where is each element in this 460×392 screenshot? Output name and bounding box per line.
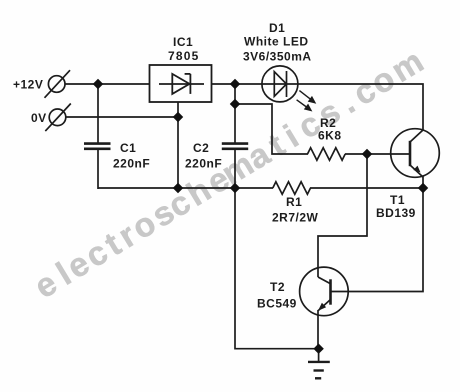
wire IC1 ground pin [177,102,179,188]
node junction rail C2 [230,183,240,193]
svg-text:3V6/350mA: 3V6/350mA [243,50,312,64]
LED arrow 1 [299,91,315,103]
transistor T1 emitter arrow [413,166,420,173]
wire T2 emitter down to ground node [317,310,319,349]
svg-text:T1: T1 [390,193,405,207]
wire C2 lower lead [234,149,236,188]
transistor T1 [391,129,440,189]
svg-text:220nF: 220nF [113,157,150,171]
node junction T1 emitter [418,183,428,193]
svg-text:C2: C2 [193,141,209,155]
resistor R1 [273,182,311,194]
svg-text:6K8: 6K8 [318,129,342,143]
svg-text:D1: D1 [269,21,285,35]
ground [308,349,330,379]
wire 0V line [66,116,178,118]
transistor T2 emitter arrow [318,303,326,311]
node junction at C1 top [93,79,103,89]
wire R1 to T1 emitter node [310,187,423,189]
wire C1 lower lead [97,149,99,189]
wire ground rail C1 to R1 [98,187,273,189]
LED D1 [262,66,298,102]
resistor R2 [308,148,346,160]
capacitor C1 [84,144,111,149]
LED arrow 2 [297,100,311,111]
node junction ground [313,343,323,353]
wire R2 junction down to T2 collector [318,154,367,277]
svg-text:7805: 7805 [168,49,200,63]
capacitor C2 [222,144,248,149]
svg-text:BD139: BD139 [376,206,416,220]
svg-text:White LED: White LED [244,35,309,49]
transistor T2 [300,267,349,316]
terminal 0V [45,104,71,132]
watermark electroschematics.com [29,43,430,306]
wire ground rail left vertical [235,188,318,349]
wire +5V node down to R2 feed node [234,84,236,143]
node junction +5V at C2 top [230,79,240,89]
svg-text:T2: T2 [270,280,285,294]
wire C1 upper lead [97,84,99,143]
svg-text:BC549: BC549 [257,297,297,311]
svg-text:220nF: 220nF [185,157,222,171]
node junction R2 T1 base [362,149,372,159]
wire +12V to IC1 [65,83,150,85]
wire R2 to T1 base [345,153,410,155]
terminal +12V [45,70,71,98]
node junction rail IC1 gnd [173,183,183,193]
svg-text:R1: R1 [286,195,302,209]
wire R2 feed elbow [235,104,308,154]
wire T1 emitter node down to T2 base [331,188,423,292]
IC1 7805 voltage regulator (box with diode symbol) [150,65,212,102]
wire LED cathode to top-right corner [297,84,423,130]
wire IC1 output to LED anode [211,83,263,85]
svg-text:C1: C1 [120,141,136,155]
svg-text:0V: 0V [31,111,47,125]
node junction 0V IC1 gnd [173,112,183,122]
svg-text:IC1: IC1 [173,35,193,49]
svg-text:2R7/2W: 2R7/2W [272,211,319,225]
node junction R2 feed [230,99,240,109]
svg-text:+12V: +12V [13,78,43,92]
